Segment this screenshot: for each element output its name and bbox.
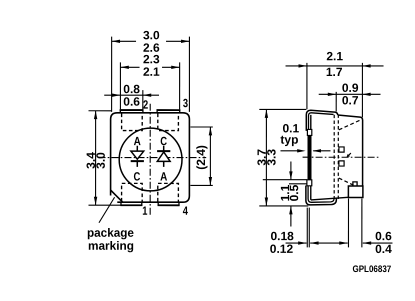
solder pad pin 4 (dashed, bottom-right) (158, 183, 179, 201)
vertical centerline (dash-dot) (149, 104, 151, 216)
svg-text:package: package (87, 226, 134, 240)
LED diode D2 (right, cathode up) (157, 146, 170, 167)
dimension 2.3/2.1 (lead span) (120, 62, 179, 109)
internal dashed vertical line (right) (337, 114, 339, 199)
lower-left J-lead (outer contour) (306, 186, 337, 205)
dimension 0.8/0.6 (pad width) (104, 90, 159, 109)
svg-text:3.0: 3.0 (94, 152, 108, 169)
upper-left J-lead (inner contour) (309, 113, 334, 131)
dimension 2.1/1.7 (top of side view) (286, 63, 384, 117)
upper-left J-lead (outer contour) (306, 110, 337, 131)
body left edge (310, 115, 312, 200)
svg-text:A: A (134, 134, 141, 148)
bottom-right lead stub bump (353, 182, 357, 186)
svg-text:1: 1 (142, 204, 147, 218)
solder pad pin 2 (dashed, top-left) (122, 113, 143, 130)
package body outline (top view) (111, 113, 190, 202)
upper lead tip cross-section (307, 129, 311, 135)
LED chip pad square (upper) (339, 147, 344, 152)
svg-text:GPL06837: GPL06837 (352, 264, 391, 275)
svg-text:2.1: 2.1 (143, 65, 160, 79)
lens circle (119, 128, 182, 191)
svg-text:2.1: 2.1 (326, 49, 343, 63)
svg-text:3.3: 3.3 (264, 149, 278, 166)
solder pad pin 1 (dashed, bottom-left) (122, 183, 143, 201)
dimension 1.1/0.5 (lead height) (263, 162, 307, 227)
svg-text:0.6: 0.6 (123, 95, 140, 109)
svg-text:0.7: 0.7 (342, 93, 359, 107)
solder pad pin 3 (dashed, top-right) (158, 113, 179, 130)
svg-text:C: C (160, 134, 167, 148)
lead tab pin 2 (top left) (120, 110, 143, 113)
chamfer corner (package marking corner) (111, 190, 123, 202)
internal dashed diagonal (bottom, reflector cup) (339, 178, 354, 185)
dimension 0.6/0.4 (lead stub width) (339, 198, 392, 247)
svg-text:marking: marking (88, 239, 134, 253)
svg-text:4: 4 (183, 204, 188, 218)
svg-text:0.12: 0.12 (270, 242, 294, 256)
svg-text:C: C (133, 169, 140, 183)
dimension 0.18/0.12 (lead thickness) (286, 208, 348, 248)
0.1 typ gap arrows (280, 149, 330, 152)
horizontal centerline (side view, dash-dot) (303, 156, 380, 158)
lead-body gap dark bar (307, 135, 310, 179)
lead tab pin 4 (bottom right) (158, 202, 179, 205)
dimension 3.4/3.0 (overall height, left) (88, 111, 121, 205)
package marking leader line (99, 197, 115, 223)
lead tab pin 3 (top right) (157, 110, 180, 113)
dimension 0.9/0.7 (319, 92, 381, 112)
svg-text:1.7: 1.7 (326, 65, 343, 79)
lead tab pin 1 (bottom left) (121, 202, 142, 205)
dimension 3.0/2.6 (overall width) (112, 37, 190, 112)
body top edge and right edge (338, 115, 363, 197)
horizontal centerline (dash-dot) (98, 157, 206, 159)
svg-text:3: 3 (183, 96, 188, 110)
dimension (2.4) (pad gap, right of top view) (190, 127, 212, 185)
svg-text:typ: typ (280, 133, 298, 147)
LED diode D1 (left, cathode down) (131, 146, 144, 167)
svg-text:(2.4): (2.4) (194, 145, 208, 170)
chip orientation arrow (348, 153, 351, 156)
lower lead tip cross-section (307, 180, 312, 186)
LED chip pad square (lower) (339, 161, 344, 166)
svg-text:2: 2 (143, 98, 148, 112)
svg-text:0.5: 0.5 (287, 184, 301, 201)
svg-text:A: A (160, 169, 167, 183)
dimension 3.7/3.3 (overall height, side view) (259, 109, 308, 206)
internal dashed vertical line (left) (333, 115, 335, 200)
svg-text:0.4: 0.4 (375, 242, 392, 256)
internal dashed diagonal (top, reflector cup) (339, 119, 362, 130)
lower-left J-lead (inner contour) (308, 186, 334, 203)
body bottom edge (311, 197, 348, 200)
bottom-right lead stub box (348, 186, 363, 198)
